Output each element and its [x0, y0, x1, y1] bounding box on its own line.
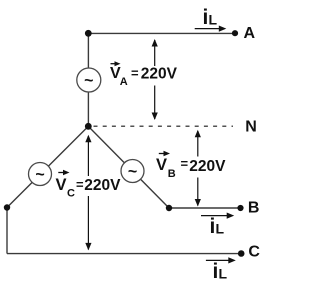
svg-text:C: C: [248, 243, 260, 260]
svg-text:~: ~: [84, 72, 93, 89]
svg-text:~: ~: [128, 163, 137, 180]
svg-text:A: A: [120, 76, 128, 88]
svg-text:N: N: [245, 118, 257, 135]
svg-text:L: L: [209, 12, 218, 28]
svg-text:~: ~: [35, 166, 44, 183]
svg-text:B: B: [168, 168, 176, 180]
svg-text:B: B: [248, 199, 260, 216]
svg-text:L: L: [216, 221, 225, 237]
svg-text:220V: 220V: [141, 65, 178, 82]
svg-text:=: =: [131, 66, 139, 81]
svg-text:L: L: [219, 265, 228, 281]
svg-text:220V: 220V: [189, 158, 226, 175]
svg-text:C: C: [67, 188, 75, 200]
svg-text:=: =: [76, 177, 84, 192]
svg-text:i: i: [213, 260, 219, 283]
svg-text:V: V: [156, 156, 167, 174]
svg-text:A: A: [244, 25, 256, 42]
svg-text:i: i: [210, 215, 216, 238]
svg-text:V: V: [56, 176, 67, 194]
svg-text:220V: 220V: [84, 177, 121, 194]
svg-text:=: =: [181, 156, 189, 171]
svg-text:i: i: [203, 6, 209, 29]
